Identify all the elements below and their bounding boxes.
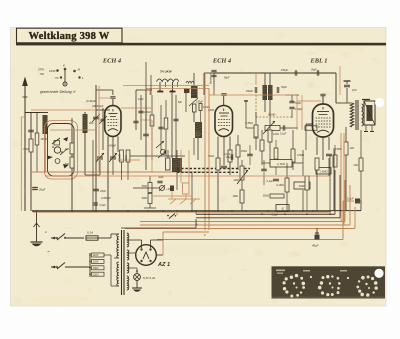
svg-text:0,1μF: 0,1μF: [280, 133, 287, 136]
svg-text:0,5MΩ: 0,5MΩ: [246, 122, 254, 125]
svg-text:UKW: UKW: [49, 69, 56, 73]
svg-text:B: B: [282, 207, 284, 211]
IF transformer 2: [246, 73, 303, 118]
antenna input coils: [23, 113, 60, 212]
detector resistor cluster: [246, 112, 279, 185]
paper stains: [30, 46, 365, 305]
screen resistor 1k right: [353, 130, 363, 204]
svg-text:AZ 1: AZ 1: [157, 262, 170, 268]
tuning gang: [92, 85, 110, 211]
svg-text:150pF: 150pF: [281, 69, 289, 72]
detector pot: [244, 100, 317, 170]
orange bus under chassis: [33, 212, 331, 214]
IF transformer 1 primary: [178, 73, 198, 112]
tube V3 EBL1: [306, 94, 334, 160]
IF transformer 1 secondary: [193, 101, 211, 161]
TA UKW input sockets: [157, 70, 179, 92]
svg-text:150V: 150V: [93, 266, 99, 270]
svg-text:0,1μF: 0,1μF: [267, 180, 274, 183]
bus junction dots: [32, 210, 314, 212]
svg-text:40μF: 40μF: [312, 244, 319, 248]
svg-text:gezeichnete Stellung: K: gezeichnete Stellung: K: [40, 90, 76, 94]
antenna bus orange: [31, 109, 96, 111]
svg-text:15000: 15000: [41, 139, 48, 141]
svg-text:100: 100: [65, 147, 70, 151]
svg-text:2,7kΩ: 2,7kΩ: [276, 162, 286, 166]
svg-text:EBL 1: EBL 1: [310, 57, 328, 64]
plate supply top line: [204, 69, 336, 104]
band selector switch indicator: [38, 64, 84, 87]
svg-text:TA: TA: [55, 76, 59, 80]
svg-text:100pF: 100pF: [196, 101, 203, 104]
svg-text:ECH 4: ECH 4: [212, 57, 231, 64]
thick horizontal rule: [16, 43, 386, 46]
svg-text:ECH 4: ECH 4: [102, 57, 121, 64]
resistor ladder mid-right: [262, 150, 331, 217]
svg-text:50pF: 50pF: [224, 77, 230, 80]
svg-text:5000: 5000: [142, 197, 148, 200]
mixer arrows: [156, 141, 166, 158]
wave band switch contacts: [45, 121, 78, 180]
svg-text:20pF: 20pF: [99, 189, 106, 193]
svg-text:0,5μF: 0,5μF: [100, 204, 107, 207]
pilot lamp: [127, 268, 156, 292]
bus interrupter switch: [167, 213, 178, 219]
paper mottling: [12, 33, 384, 305]
volume potentiometer 1M: [232, 160, 248, 211]
components below tube V2: [208, 135, 247, 211]
AVC wire left: [31, 171, 203, 173]
svg-text:1,5MΩ: 1,5MΩ: [319, 170, 327, 174]
svg-text:125V: 125V: [93, 260, 99, 264]
rectifier tube AZ1: [127, 232, 163, 265]
nested supply lines: [125, 170, 355, 229]
svg-text:50kΩ: 50kΩ: [263, 194, 269, 198]
svg-text:(30-40)pF: (30-40)pF: [92, 104, 104, 108]
svg-text:(0-40)pF: (0-40)pF: [86, 99, 96, 103]
pinout circles: [276, 270, 378, 298]
svg-text:220V: 220V: [92, 272, 99, 276]
svg-text:1kΩ: 1kΩ: [353, 163, 358, 167]
svg-text:25kΩ: 25kΩ: [240, 150, 247, 153]
components below tube V1: [92, 140, 130, 211]
svg-text:10kΩ: 10kΩ: [273, 133, 279, 136]
legend text marks: [276, 270, 285, 272]
waveband switch block orange: [153, 183, 200, 204]
svg-text:2nF: 2nF: [351, 88, 357, 92]
svg-text:10pF: 10pF: [138, 98, 144, 101]
voltage selector switch S2: [44, 230, 111, 277]
oscillator coil 400: [83, 112, 101, 175]
shielded wire to volume pot: [177, 168, 250, 170]
title box: [17, 28, 123, 43]
svg-text:100pF: 100pF: [144, 111, 152, 114]
tube V1 ECH4: [86, 90, 121, 211]
output cap 0.5uF: [331, 197, 361, 211]
speaker stubs: [364, 125, 374, 132]
punch hole top: [375, 98, 384, 107]
components below tube V3: [315, 145, 342, 211]
svg-text:6,3V 0,3A: 6,3V 0,3A: [143, 276, 155, 280]
fuse 0.1A: [86, 231, 111, 241]
cathode resistor 1k: [344, 127, 354, 211]
svg-text:700: 700: [65, 162, 70, 166]
antenna: [22, 77, 28, 212]
mains transformer T1: [111, 230, 129, 295]
RF verticals: [158, 90, 178, 158]
svg-text:74Ω: 74Ω: [40, 73, 45, 76]
svg-text:2.: 2.: [44, 230, 48, 234]
tube pinout legend box: [272, 266, 386, 298]
output transformer: [336, 100, 363, 130]
svg-text:50pF: 50pF: [295, 101, 301, 105]
chassis ground bus: [33, 210, 331, 212]
svg-text:0,1MΩ: 0,1MΩ: [276, 183, 284, 187]
svg-text:7MΩ: 7MΩ: [23, 148, 28, 151]
svg-text:1MΩ: 1MΩ: [233, 178, 239, 182]
svg-text:5pF: 5pF: [178, 101, 183, 104]
speaker: [364, 101, 375, 125]
B+ line with filter cap: [157, 201, 354, 248]
mid coupling column: [133, 90, 154, 170]
svg-text:20pF: 20pF: [310, 69, 317, 72]
svg-text:Bereichum.: Bereichum.: [211, 72, 213, 84]
svg-text:Weltklang 398 W: Weltklang 398 W: [28, 31, 109, 42]
svg-text:50pF: 50pF: [281, 85, 287, 89]
oscillator coil pack: [130, 150, 185, 190]
resistor chain oscillator: [65, 118, 74, 211]
AVC dashed line: [255, 95, 257, 117]
svg-text:400pF: 400pF: [109, 145, 117, 148]
AZ1 heater orange line: [163, 231, 209, 233]
svg-text:TA UKW: TA UKW: [160, 70, 173, 74]
mains switch S1: [51, 234, 84, 241]
svg-text:150pF: 150pF: [246, 89, 254, 93]
svg-text:1MΩ: 1MΩ: [232, 194, 238, 198]
orange risers mid: [118, 66, 340, 183]
coupling cap 0.1uF mid: [224, 153, 233, 160]
padder trimmers: [133, 175, 174, 208]
transformer top wiring: [121, 219, 206, 237]
ground symbol bottom left: [31, 211, 43, 246]
svg-text:2x500pF: 2x500pF: [100, 197, 111, 200]
svg-text:5000: 5000: [142, 185, 148, 188]
punch hole bottom: [374, 269, 383, 278]
cap 2nF top right: [344, 81, 371, 103]
osc feedback orange: [50, 129, 96, 131]
svg-text:150pF: 150pF: [295, 107, 303, 111]
svg-text:0,1A: 0,1A: [87, 231, 93, 235]
grid risers mid: [146, 62, 151, 130]
svg-text:1kΩ: 1kΩ: [350, 146, 355, 150]
svg-text:400: 400: [89, 121, 94, 125]
svg-text:1TRN: 1TRN: [38, 69, 45, 72]
orange risers right: [334, 133, 344, 225]
svg-text:20μF: 20μF: [38, 188, 46, 192]
svg-text:110V: 110V: [93, 253, 99, 257]
tube V2 ECH4: [208, 94, 233, 165]
svg-text:0,1MΩ: 0,1MΩ: [268, 114, 276, 117]
heater supply orange loop: [45, 73, 330, 230]
